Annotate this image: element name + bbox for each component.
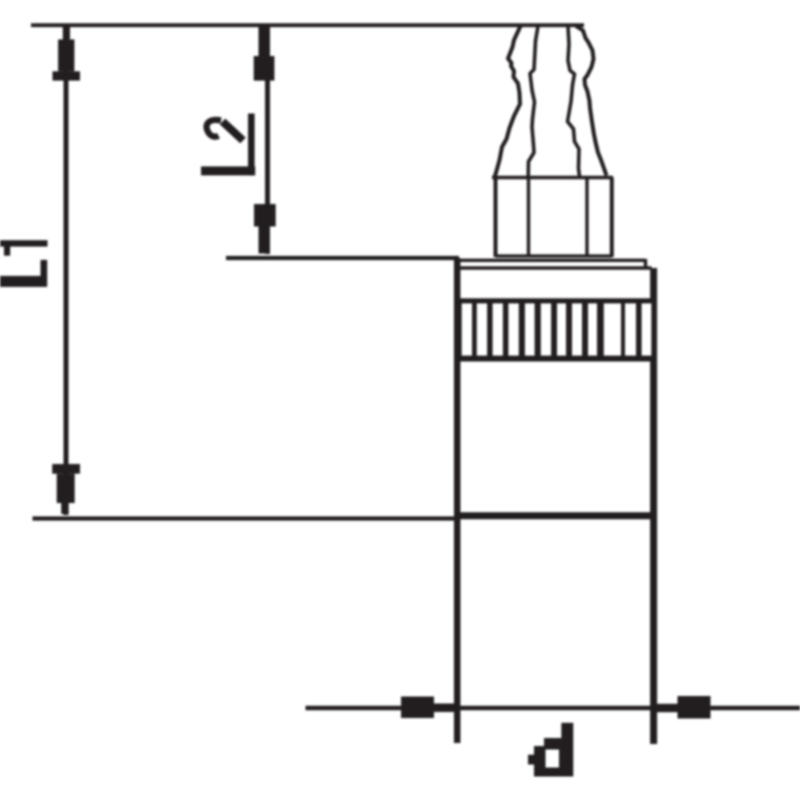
nozzle tip inner left contour: [528, 26, 538, 178]
wire d dimension line: [306, 706, 800, 711]
wire top reference line: [31, 23, 584, 27]
wire L1 bottom reference line: [33, 516, 458, 520]
node plate2 top edge: [458, 266, 652, 269]
node L1 bottom arrow: [52, 464, 80, 514]
wire body left edge: [454, 258, 461, 743]
node block bottom edge: [496, 254, 613, 257]
node label d: [528, 723, 573, 777]
node d left arrow: [401, 697, 457, 719]
node block top edge: [492, 176, 613, 180]
nozzle tip outer left contour: [495, 26, 521, 178]
wire L1 dimension line: [64, 26, 69, 515]
wire plate1 right edge: [644, 259, 647, 269]
node plate1 top edge: [458, 259, 646, 262]
wire block inner right line: [585, 179, 588, 257]
node label L1: [0, 240, 48, 287]
wire block left edge: [494, 178, 498, 258]
node L2 top arrow: [254, 27, 275, 81]
node knurled band: [454, 298, 657, 361]
node d right arrow: [654, 696, 711, 719]
wire L2 bottom reference line: [226, 256, 459, 260]
wire block inner left line: [527, 179, 530, 257]
node label L2: [201, 114, 255, 176]
wire L2 dimension line: [265, 26, 270, 254]
node L1 top arrow: [53, 27, 81, 81]
node L2 bottom arrow: [254, 204, 276, 254]
wire block right edge: [610, 178, 614, 258]
nozzle tip outer right contour: [576, 26, 607, 176]
nozzle tip inner right contour: [568, 26, 580, 177]
wire body right edge: [650, 268, 657, 744]
